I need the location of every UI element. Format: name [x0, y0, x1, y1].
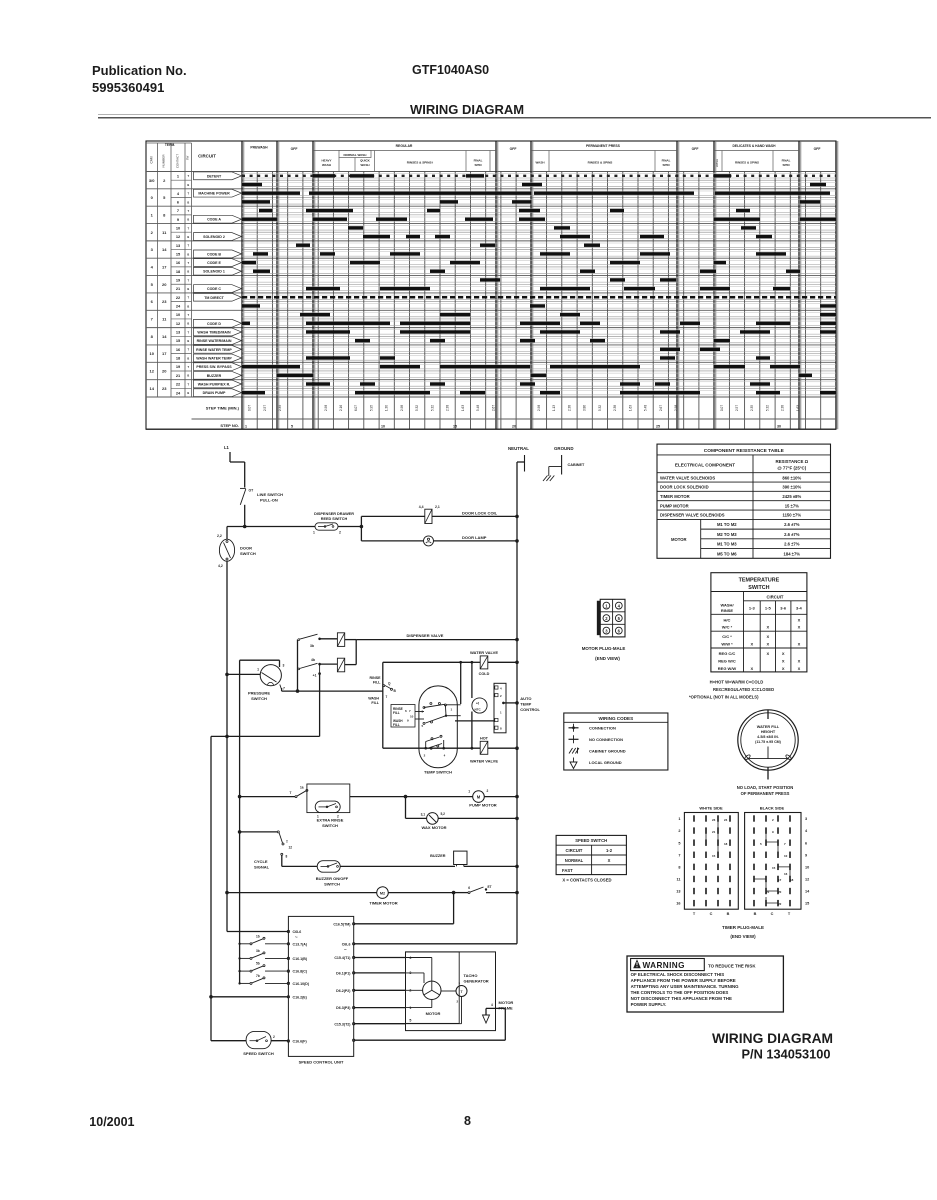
svg-text:GROUND: GROUND [554, 446, 574, 451]
svg-text:1.63: 1.63 [628, 405, 632, 411]
svg-text:1.13: 1.13 [552, 405, 556, 411]
svg-text:CODE A: CODE A [207, 218, 221, 222]
timer chart row track lines [242, 177, 836, 179]
svg-text:TEMP: TEMP [520, 702, 531, 707]
svg-text:X: X [782, 659, 785, 664]
svg-text:NUMBER: NUMBER [162, 154, 166, 168]
svg-text:WASH WATER TEMP: WASH WATER TEMP [196, 356, 232, 360]
svg-text:X: X [766, 642, 769, 647]
svg-text:HOT: HOT [480, 736, 489, 740]
svg-text:6: 6 [805, 841, 807, 845]
svg-text:1: 1 [678, 817, 680, 821]
svg-text:10/2001: 10/2001 [89, 1115, 134, 1129]
svg-text:C13.7(A): C13.7(A) [293, 942, 308, 946]
svg-text:DETENT: DETENT [207, 174, 222, 178]
svg-text:FILL: FILL [393, 711, 400, 715]
svg-text:21: 21 [712, 830, 716, 834]
svg-text:X: X [798, 617, 801, 622]
wire pressure switch T1 [225, 673, 229, 677]
wire to motor frame ground [354, 1039, 506, 1041]
svg-text:SOLENOID 2: SOLENOID 2 [203, 235, 225, 239]
wire +1 down to lower bus [319, 674, 321, 737]
svg-text:C16.8(C): C16.8(C) [293, 970, 308, 974]
motor frame local ground [485, 1008, 487, 1015]
wire dispenser coils to rail [355, 640, 357, 665]
svg-text:2,2: 2,2 [217, 534, 222, 538]
svg-text:X: X [798, 659, 801, 664]
svg-text:7: 7 [678, 853, 680, 857]
svg-text:3: 3 [283, 664, 285, 668]
svg-text:*OPTIONAL (NOT IN ALL MODELS): *OPTIONAL (NOT IN ALL MODELS) [689, 695, 759, 700]
svg-text:QUICK: QUICK [360, 159, 371, 163]
speed selector contacts A-D [238, 943, 240, 945]
svg-text:WASH: WASH [368, 697, 379, 701]
temp switch circuit top wire [383, 661, 472, 663]
svg-text:X: X [782, 651, 785, 656]
wire temp switch top feeder [460, 662, 462, 704]
svg-text:2.38: 2.38 [567, 405, 571, 411]
svg-text:RINSE WATER TEMP: RINSE WATER TEMP [196, 348, 232, 352]
svg-text:TACHO: TACHO [464, 973, 478, 978]
svg-text:WATER VALVE: WATER VALVE [470, 758, 498, 763]
svg-text:SWITCH: SWITCH [322, 823, 338, 828]
svg-text:11: 11 [676, 878, 680, 882]
node junction door lock / door lamp [360, 525, 364, 529]
svg-text:SPIN: SPIN [474, 163, 481, 167]
svg-text:5: 5 [678, 841, 680, 845]
svg-text:DOOR: DOOR [240, 546, 252, 551]
timer chart row lines [146, 171, 242, 173]
svg-text:WASH: WASH [715, 159, 719, 167]
component resistance table motor rows [700, 519, 702, 558]
svg-text:L1: L1 [224, 445, 230, 450]
svg-text:20: 20 [162, 282, 167, 287]
svg-text:C16.6(F): C16.6(F) [293, 1040, 308, 1044]
speed switch [246, 1031, 271, 1048]
timer chart left panel column lines [157, 143, 159, 397]
svg-text:2.98: 2.98 [400, 405, 404, 411]
svg-text:X: X [750, 642, 753, 647]
svg-text:6.07: 6.07 [354, 405, 358, 411]
svg-text:3b: 3b [256, 949, 260, 953]
svg-text:WATER FILL: WATER FILL [757, 725, 780, 729]
svg-text:MOTOR: MOTOR [499, 1000, 514, 1005]
svg-text:OFF: OFF [814, 147, 821, 151]
svg-text:10: 10 [176, 312, 180, 317]
svg-text:TEMPERATURE: TEMPERATURE [739, 578, 780, 584]
svg-text:2.38: 2.38 [781, 405, 785, 411]
svg-text:NO CONNECTION: NO CONNECTION [589, 737, 623, 742]
svg-text:RINSE: RINSE [721, 608, 734, 613]
svg-text:B: B [187, 374, 189, 378]
svg-text:3,1: 3,1 [421, 813, 426, 817]
motor inner box [406, 952, 460, 1024]
svg-text:~: ~ [295, 935, 298, 940]
svg-text:12: 12 [805, 878, 809, 882]
svg-text:2,1: 2,1 [435, 505, 440, 509]
svg-text:W/W *: W/W * [721, 642, 733, 647]
svg-text:1-3: 1-3 [749, 606, 756, 611]
svg-text:16: 16 [784, 872, 788, 876]
wire to door lamp [361, 540, 423, 542]
svg-text:CIRCUIT: CIRCUIT [198, 154, 216, 159]
svg-text:23: 23 [162, 386, 167, 391]
svg-text:SPEED SWITCH: SPEED SWITCH [575, 838, 607, 843]
svg-text:5: 5 [409, 1019, 411, 1023]
svg-text:LINE SWITCH: LINE SWITCH [257, 492, 283, 497]
svg-text:COLD: COLD [479, 672, 490, 676]
svg-text:X: X [750, 666, 753, 671]
svg-text:(END VIEW): (END VIEW) [595, 656, 620, 661]
svg-text:1-2: 1-2 [606, 848, 613, 853]
svg-text:TERM.: TERM. [165, 143, 175, 147]
svg-text:8: 8 [678, 865, 680, 869]
svg-text:B: B [187, 218, 189, 222]
svg-text:2.38: 2.38 [613, 405, 617, 411]
warning box [627, 956, 783, 1012]
timer chart thin step column lines [256, 172, 258, 430]
svg-text:WHITE SIDE: WHITE SIDE [699, 806, 723, 811]
svg-text:2: 2 [339, 531, 341, 535]
timer chart sub-header boxes (permanent press) [548, 151, 550, 172]
svg-text:(11.75 ±.95 CM): (11.75 ±.95 CM) [755, 740, 782, 744]
svg-text:FINAL: FINAL [474, 159, 483, 163]
svg-text:X: X [766, 634, 769, 639]
svg-text:THE CONTROLS TO THE OFF POSITI: THE CONTROLS TO THE OFF POSITION DOES [631, 990, 729, 995]
wire mini box to temp switch [415, 711, 424, 713]
svg-text:SOLENOID 1: SOLENOID 1 [203, 270, 225, 274]
svg-text:M1 TO M3: M1 TO M3 [717, 542, 737, 547]
svg-text:NO LOAD, START POSITION: NO LOAD, START POSITION [737, 785, 793, 790]
svg-text:390 ±10%: 390 ±10% [782, 485, 801, 490]
svg-text:7: 7 [283, 687, 285, 691]
auto temp control [494, 683, 506, 733]
svg-text:860 ±10%: 860 ±10% [782, 475, 801, 480]
svg-text:24: 24 [724, 818, 728, 822]
temp switch internal contacts [423, 707, 425, 709]
svg-text:BUZZER: BUZZER [430, 854, 446, 858]
svg-text:B: B [187, 200, 189, 204]
svg-text:5b: 5b [256, 962, 260, 966]
wire extra rinse to pump motor [350, 796, 473, 798]
temp switch lower contacts [431, 738, 433, 740]
svg-text:BUZZER: BUZZER [207, 374, 222, 378]
svg-text:HEIGHT: HEIGHT [761, 730, 776, 734]
svg-text:2: 2 [487, 789, 489, 793]
left feed wire down [210, 736, 212, 1040]
svg-text:B: B [727, 912, 730, 916]
timer chart TM DIRECT dashed bar [242, 296, 836, 299]
svg-text:C6L6: C6L6 [342, 942, 351, 946]
svg-text:C16.5(TM): C16.5(TM) [333, 922, 351, 926]
wiring codes legend box [564, 713, 668, 770]
svg-text:C: C [771, 912, 774, 916]
svg-text:17: 17 [162, 351, 167, 356]
svg-text:T: T [286, 840, 288, 844]
timer motor [225, 891, 229, 895]
svg-text:TIMER MOTOR: TIMER MOTOR [369, 901, 397, 906]
svg-text:FINAL: FINAL [662, 159, 671, 163]
wire 3b to dispenser coil 1 [320, 638, 338, 640]
svg-text:18: 18 [790, 878, 794, 882]
svg-text:SWITCH: SWITCH [324, 882, 340, 887]
neutral rail [516, 462, 518, 944]
svg-text:5,2: 5,2 [441, 812, 446, 816]
svg-text:5.48: 5.48 [476, 405, 480, 411]
svg-text:EXTRA RINSE: EXTRA RINSE [317, 818, 344, 823]
svg-text:B: B [187, 356, 189, 360]
svg-text:(END VIEW): (END VIEW) [730, 934, 756, 939]
svg-text:2.6 ±7%: 2.6 ±7% [784, 532, 800, 537]
svg-text:WAX MOTOR: WAX MOTOR [421, 825, 446, 830]
svg-text:25: 25 [656, 425, 660, 429]
svg-text:3-6: 3-6 [780, 606, 787, 611]
svg-text:DRAIN PUMP: DRAIN PUMP [203, 391, 226, 395]
svg-text:C: C [710, 912, 713, 916]
svg-text:M2 TO M3: M2 TO M3 [717, 532, 737, 537]
svg-text:CONTACT: CONTACT [176, 154, 180, 168]
svg-text:APPLIANCE FROM THE POWER SUPPL: APPLIANCE FROM THE POWER SUPPLY BEFORE [631, 978, 736, 983]
svg-text:7: 7 [386, 695, 388, 699]
svg-text:2.67: 2.67 [491, 405, 495, 411]
svg-text:CODE C: CODE C [207, 287, 221, 291]
svg-text:2.57: 2.57 [263, 405, 267, 411]
svg-text:X: X [608, 858, 611, 863]
cycle signal switch [238, 830, 242, 834]
svg-text:PERMANENT PRESS: PERMANENT PRESS [586, 144, 621, 148]
svg-text:4b: 4b [311, 658, 315, 662]
svg-text:REED SWITCH: REED SWITCH [321, 517, 348, 521]
svg-text:8: 8 [464, 1114, 471, 1128]
buzzer on/off switch [282, 865, 317, 867]
door lamp [424, 536, 434, 546]
svg-text:WASH TIMED/MAIN: WASH TIMED/MAIN [197, 330, 231, 334]
svg-text:2.16: 2.16 [339, 405, 343, 411]
svg-text:C16.10(D): C16.10(D) [293, 982, 310, 986]
svg-text:WIRING DIAGRAM: WIRING DIAGRAM [410, 102, 524, 117]
wire door switch down the left side [226, 561, 228, 931]
wax motor [405, 797, 407, 819]
wire line switch to junction [244, 505, 246, 527]
timer chart DETENT dashed track row 1 [242, 175, 836, 177]
svg-text:4,4: 4,4 [419, 505, 424, 509]
svg-text:MACHINE POWER: MACHINE POWER [198, 192, 230, 196]
svg-text:23: 23 [712, 818, 716, 822]
wire C6L6 right to rail bottom [354, 943, 517, 945]
svg-text:C16.2(E): C16.2(E) [293, 995, 308, 999]
node junction L1/door switch [243, 525, 247, 529]
svg-text:TM DIRECT: TM DIRECT [204, 296, 224, 300]
svg-text:LOCAL GROUND: LOCAL GROUND [589, 760, 622, 765]
svg-text:2425 ±8%: 2425 ±8% [782, 494, 801, 499]
svg-text:15: 15 [772, 866, 776, 870]
svg-text:PRESSURE: PRESSURE [248, 691, 270, 696]
svg-text:M: M [477, 795, 481, 800]
temp switch oval [419, 686, 457, 768]
speed control unit right pins [353, 923, 355, 925]
svg-text:1b: 1b [256, 934, 260, 938]
svg-text:12: 12 [149, 369, 154, 374]
svg-text:20: 20 [778, 890, 782, 894]
svg-text:5.32: 5.32 [598, 405, 602, 411]
svg-text:1.30: 1.30 [385, 405, 389, 411]
timer chart circuit name labels [194, 172, 242, 180]
svg-text:GENERATOR: GENERATOR [464, 979, 489, 984]
svg-text:12: 12 [289, 846, 293, 850]
svg-text:10: 10 [176, 225, 180, 230]
svg-text:5.48: 5.48 [644, 405, 648, 411]
svg-text:PUMP MOTOR: PUMP MOTOR [469, 803, 497, 808]
svg-text:ET: ET [488, 885, 492, 889]
svg-text:CABINET: CABINET [568, 463, 586, 467]
svg-text:C15.3(T2): C15.3(T2) [334, 1022, 351, 1026]
svg-text:0.07: 0.07 [720, 405, 724, 411]
svg-text:2.67: 2.67 [659, 405, 663, 411]
svg-text:OFF: OFF [692, 147, 699, 151]
temp switch circuit left edge [382, 662, 384, 748]
svg-text:REG W/C: REG W/C [718, 659, 736, 664]
svg-text:3b: 3b [310, 644, 314, 648]
svg-text:RINSES & SPINS†: RINSES & SPINS† [407, 161, 434, 165]
svg-text:30: 30 [777, 425, 781, 429]
svg-text:2.98: 2.98 [324, 405, 328, 411]
wire main feed to reed switch [245, 526, 315, 528]
svg-text:1: 1 [245, 425, 247, 429]
svg-text:B: B [187, 235, 189, 239]
svg-text:1: 1 [257, 668, 259, 672]
svg-text:SPIN: SPIN [662, 163, 669, 167]
svg-text:W/C *: W/C * [722, 625, 733, 630]
line switch PULL-ON (OT) [240, 487, 246, 489]
extra rinse switch [238, 795, 242, 799]
svg-text:CYCLE: CYCLE [254, 859, 268, 864]
svg-text:M1 TO M2: M1 TO M2 [717, 522, 737, 527]
svg-text:15: 15 [805, 902, 809, 906]
svg-text:DOOR LAMP: DOOR LAMP [462, 535, 487, 540]
svg-text:23: 23 [162, 299, 167, 304]
svg-text:5: 5 [291, 425, 293, 429]
svg-text:P/N 134053100: P/N 134053100 [742, 1047, 831, 1062]
svg-text:16: 16 [676, 902, 680, 906]
svg-text:STEP TIME (MIN.): STEP TIME (MIN.) [206, 406, 240, 411]
dispenser valve solenoid 1 [337, 633, 344, 647]
svg-text:REGULAR: REGULAR [396, 144, 413, 148]
wiring code: no connection [573, 735, 575, 743]
svg-text:10: 10 [149, 351, 154, 356]
svg-text:CONNECTION: CONNECTION [589, 726, 616, 731]
dispenser valve solenoid 2 [337, 658, 344, 672]
svg-text:SWITCH: SWITCH [251, 696, 267, 701]
svg-text:B: B [754, 912, 757, 916]
svg-text:X: X [798, 666, 801, 671]
svg-text:CODE D: CODE D [207, 322, 221, 326]
svg-text:B: B [187, 339, 189, 343]
svg-text:184 ±7%: 184 ±7% [784, 551, 801, 556]
svg-text:2: 2 [273, 1035, 275, 1039]
svg-text:17: 17 [778, 878, 782, 882]
svg-text:FILL: FILL [393, 723, 400, 727]
svg-text:10: 10 [410, 715, 414, 719]
wire buzzer switch to buzzer [340, 865, 455, 867]
svg-text:B: B [187, 252, 189, 256]
svg-text:B: B [187, 322, 189, 326]
svg-text:FINAL: FINAL [782, 159, 791, 163]
svg-text:CODE E: CODE E [207, 261, 221, 265]
svg-text:D6.1(P1): D6.1(P1) [336, 972, 351, 976]
NTC thermistor [471, 662, 473, 698]
svg-text:15: 15 [712, 854, 716, 858]
door switch [219, 539, 234, 561]
svg-text:POWER SUPPLY.: POWER SUPPLY. [631, 1002, 667, 1007]
svg-text:4: 4 [491, 1003, 493, 1007]
svg-text:NEUTRAL: NEUTRAL [508, 446, 529, 451]
svg-text:M5 TO M6: M5 TO M6 [717, 551, 737, 556]
svg-text:NTC: NTC [475, 708, 482, 712]
svg-text:5995360491: 5995360491 [92, 80, 164, 95]
wire L1 to line switch [230, 461, 245, 463]
svg-text:CIRCUIT: CIRCUIT [767, 595, 784, 600]
svg-text:WIRING DIAGRAM: WIRING DIAGRAM [712, 1031, 833, 1046]
svg-text:AUTO: AUTO [520, 696, 531, 701]
timer chart sub-header boxes (regular) [339, 151, 371, 158]
svg-text:TIMER MOTOR: TIMER MOTOR [660, 494, 690, 499]
svg-text:TIMER PLUG-MALE: TIMER PLUG-MALE [722, 925, 764, 930]
svg-text:NORMAL: NORMAL [565, 858, 584, 863]
svg-text:CABINET GROUND: CABINET GROUND [589, 749, 626, 754]
svg-text:1.63: 1.63 [461, 405, 465, 411]
motor [423, 981, 441, 999]
svg-text:20: 20 [512, 425, 516, 429]
svg-text:C15.4(T1): C15.4(T1) [334, 956, 351, 960]
svg-text:3-4: 3-4 [796, 606, 803, 611]
wire junction to door switch [227, 526, 245, 528]
svg-text:2.98: 2.98 [537, 405, 541, 411]
svg-text:0.07: 0.07 [248, 405, 252, 411]
svg-text:ATTEMPTING ANY USER MAINTENANC: ATTEMPTING ANY USER MAINTENANCE. TURNING [631, 984, 740, 989]
svg-text:CODE B: CODE B [207, 252, 221, 256]
svg-text:4-5/8 ±3/8 IN.: 4-5/8 ±3/8 IN. [757, 735, 779, 739]
svg-text:X: X [782, 666, 785, 671]
svg-text:REG W/W: REG W/W [718, 666, 737, 671]
svg-text:BLACK SIDE: BLACK SIDE [760, 806, 785, 811]
svg-text:OF PERMANENT PRESS: OF PERMANENT PRESS [741, 791, 790, 796]
svg-text:TEMP SWITCH: TEMP SWITCH [424, 770, 452, 775]
pressure switch [260, 665, 281, 686]
svg-text:FILL: FILL [373, 681, 381, 685]
svg-text:B: B [187, 287, 189, 291]
svg-text:DOOR LOCK SOLENOID: DOOR LOCK SOLENOID [660, 485, 709, 490]
svg-text:1: 1 [313, 531, 315, 535]
svg-text:~: ~ [344, 947, 347, 952]
motor internal wiring [406, 957, 432, 959]
svg-text:PREWASH: PREWASH [250, 146, 268, 150]
svg-text:14: 14 [149, 386, 154, 391]
wire temp switch to auto temp control [455, 720, 494, 722]
svg-text:B: B [187, 183, 189, 187]
svg-text:CONTROL: CONTROL [520, 707, 540, 712]
svg-text:14: 14 [162, 247, 167, 252]
svg-text:FAST: FAST [562, 868, 573, 873]
motor assembly outer box [406, 952, 496, 1031]
wire pressure switch T7 to temp switch [280, 685, 282, 690]
svg-text:CIRCUIT: CIRCUIT [566, 848, 583, 853]
svg-text:X: X [798, 625, 801, 630]
svg-text:MOTOR PLUG-MALE: MOTOR PLUG-MALE [582, 646, 626, 651]
svg-text:ELECTRICAL COMPONENT: ELECTRICAL COMPONENT [675, 462, 735, 467]
svg-text:1a: 1a [300, 786, 304, 790]
svg-text:13: 13 [676, 890, 680, 894]
svg-text:T: T [290, 791, 292, 795]
